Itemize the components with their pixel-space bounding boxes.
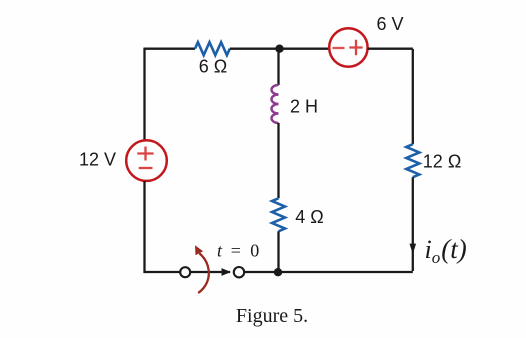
svg-text:6 Ω: 6 Ω	[199, 57, 227, 77]
source V 12V circle	[126, 140, 167, 181]
resistor R 12ohm	[406, 144, 419, 177]
switch blade arrowhead	[222, 268, 231, 276]
node bottom junction	[274, 268, 282, 276]
svg-text:6 V: 6 V	[376, 14, 403, 34]
svg-text:io(t): io(t)	[425, 234, 467, 267]
wire right vertical upper	[412, 49, 414, 144]
wire top-middle segment	[230, 48, 329, 50]
minus sign of 12V source	[139, 167, 153, 169]
wire top-right segment	[368, 48, 413, 50]
resistor R 4ohm	[272, 198, 285, 231]
resistor R 6ohm	[195, 42, 230, 55]
svg-text:12 Ω: 12 Ω	[423, 152, 461, 172]
svg-text:12 V: 12 V	[79, 150, 116, 170]
switch closing arc arrow	[198, 253, 209, 293]
wire top-left segment	[145, 48, 196, 50]
wire middle vertical middle	[277, 123, 279, 198]
plus sign of 12V source	[137, 147, 153, 161]
svg-text:0: 0	[250, 241, 259, 261]
wire right vertical lower	[412, 177, 414, 271]
svg-text:t: t	[217, 241, 223, 261]
minus sign of 6V source	[333, 47, 345, 49]
svg-text:=: =	[231, 241, 241, 261]
source V 6V circle	[329, 28, 367, 66]
switch arc arrowhead	[195, 245, 203, 255]
switch contact circle left	[180, 267, 190, 277]
current arrow io(t) head	[410, 244, 417, 254]
wire switch blade segment	[191, 271, 231, 273]
wire bottom left segment	[145, 271, 181, 273]
svg-text:Figure 5.: Figure 5.	[236, 305, 308, 327]
inductor L 2H	[272, 85, 279, 123]
wire middle vertical lower	[277, 231, 279, 272]
switch contact circle right	[234, 267, 244, 277]
svg-text:4 Ω: 4 Ω	[295, 207, 323, 227]
wire left vertical upper	[143, 48, 145, 141]
plus sign of 6V source	[349, 40, 362, 56]
node top junction	[275, 45, 283, 53]
wire middle vertical upper	[277, 49, 279, 85]
wire left vertical lower	[143, 181, 145, 273]
svg-text:2 H: 2 H	[290, 97, 318, 117]
wire bottom right segment	[244, 271, 412, 273]
